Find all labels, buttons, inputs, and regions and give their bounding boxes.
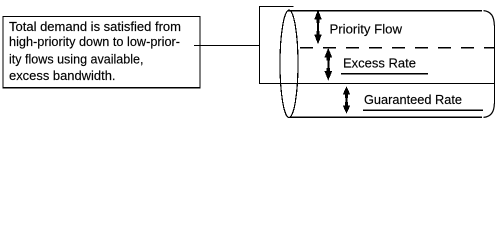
arrow excess-rate	[325, 48, 333, 81]
svg-text:Total demand is satisfied from: Total demand is satisfied from	[9, 19, 181, 34]
cylinder right edge	[494, 25, 496, 104]
underline excess-rate	[341, 73, 428, 75]
callout text	[9, 19, 181, 83]
cylinder top line	[288, 10, 482, 12]
svg-text:Priority Flow: Priority Flow	[330, 21, 403, 36]
wire middle boundary line	[259, 83, 495, 85]
underline guaranteed-rate	[363, 109, 483, 111]
callout box	[3, 16, 201, 88]
dashed divider	[300, 47, 495, 49]
svg-text:Guaranteed Rate: Guaranteed Rate	[364, 92, 462, 107]
cylinder left cap ellipse	[280, 10, 298, 117]
arrow guaranteed-rate	[343, 86, 351, 114]
arrow priority-flow	[314, 10, 322, 45]
frame top edge	[259, 6, 294, 8]
svg-text:high-priority down to low-prio: high-priority down to low-prior-	[9, 34, 180, 49]
cylinder bottom-right corner	[484, 104, 495, 118]
cylinder top-right corner	[484, 11, 495, 26]
cylinder bottom line	[290, 116, 482, 118]
svg-text:Excess Rate: Excess Rate	[343, 56, 416, 71]
frame left edge	[259, 6, 261, 84]
svg-text:ity flows using available,: ity flows using available,	[9, 51, 144, 66]
wire connector box to pipe	[194, 45, 260, 47]
svg-text:excess bandwidth.: excess bandwidth.	[9, 68, 116, 83]
